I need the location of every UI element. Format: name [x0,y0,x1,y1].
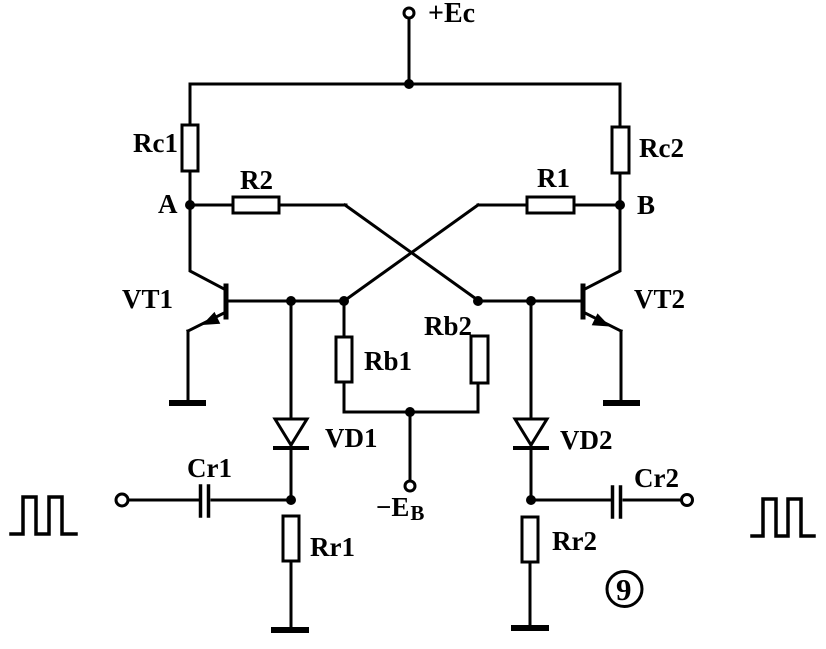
resistor R2 [233,197,279,213]
resistor Rb2 [471,336,488,383]
svg-text:+Ec: +Ec [428,0,475,29]
terminal -EB [405,481,415,491]
svg-text:Cr1: Cr1 [187,453,232,483]
junction VD1 Cr1 Rr1 [286,495,296,505]
wire VD1 cathode to input node [290,448,293,500]
svg-text:Rc1: Rc1 [133,128,178,158]
resistor Rc1 [182,125,198,171]
wire VD2 cathode to output node [530,448,533,500]
wire VT2 emitter to ground [620,331,623,401]
wire R1 to cross-coupling [478,204,527,207]
transistor VT1 [188,286,226,331]
junction VT2 base and VD2 [526,296,536,306]
svg-text:B: B [637,190,655,220]
svg-text:Cr2: Cr2 [634,463,679,493]
node B [615,200,625,210]
wire +Ec down to top rail [408,18,411,84]
terminal output right [682,495,693,506]
junction VT2 base and Rb2 [473,296,483,306]
svg-text:R1: R1 [537,163,570,193]
waveform input pulses left [11,497,76,534]
svg-text:VT2: VT2 [634,284,685,314]
junction on top rail [404,79,414,89]
wire Rc1 to node A [189,171,192,205]
wire Rc2 to node B [619,173,622,205]
waveform output pulses right [752,499,814,536]
wire cross-coupling A to VT2 base (diagonal) [345,205,479,301]
wire VD2 anode [530,301,533,448]
wire input terminal to Cr1 [128,499,199,502]
svg-text:Rr2: Rr2 [552,526,597,556]
capacitor Cr1 [201,486,209,516]
svg-text:Rb2: Rb2 [424,311,472,341]
resistor Rc2 [612,127,629,173]
svg-text:VD2: VD2 [560,425,613,455]
ground Rr1 [274,627,306,633]
wire Rb1 top [343,301,346,337]
resistor Rr2 [522,517,538,562]
resistor Rb1 [336,337,352,382]
wire output node to Cr2 [531,499,611,502]
node A [185,200,195,210]
svg-text:Rc2: Rc2 [639,133,684,163]
wire R2 to cross-coupling [279,204,346,207]
wire Cr1 to input node [212,499,291,502]
wire cross-coupling B to VT1 base (diagonal) [344,205,478,301]
ground VT1 emitter [172,400,203,406]
junction VD2 Cr2 Rr2 [526,495,536,505]
svg-text:VT1: VT1 [122,284,173,314]
figure number 9 [607,572,642,608]
wire Cr2 to output terminal [624,499,681,502]
resistor Rr1 [283,516,299,561]
wire top supply rail [190,84,620,127]
wire node A to VT1 collector [190,205,226,290]
wire VT2 base [478,300,582,303]
wire VT1 base [226,300,344,303]
wire Rr2 to ground [529,562,532,625]
capacitor Cr2 [613,487,621,517]
svg-text:R2: R2 [240,165,273,195]
wire node B to VT2 collector [583,205,620,290]
diode VD1 [275,419,307,448]
svg-text:Rr1: Rr1 [310,532,355,562]
junction VT1 base and Rb1 [339,296,349,306]
wire VD1 anode [290,301,293,448]
svg-text:9: 9 [616,572,632,607]
wire VT1 emitter to ground [187,331,190,401]
transistor VT2 [583,286,621,331]
wire Rb1 Rb2 bottom rail [344,382,478,412]
svg-text:A: A [158,189,178,219]
junction VT1 base and VD1 [286,296,296,306]
resistor R1 [527,197,574,213]
svg-text:Rb1: Rb1 [364,346,412,376]
ground VT2 emitter [606,400,637,406]
terminal +Ec [404,8,414,18]
ground Rr2 [514,625,546,631]
wire to -EB terminal [409,412,412,481]
junction -EB rail [405,407,415,417]
wire node A to R2 [190,204,233,207]
wire node B to R1 [574,204,620,207]
diode VD2 [515,419,547,448]
terminal input left [116,494,128,506]
svg-text:VD1: VD1 [325,423,378,453]
wire Rr1 to ground [290,561,293,627]
